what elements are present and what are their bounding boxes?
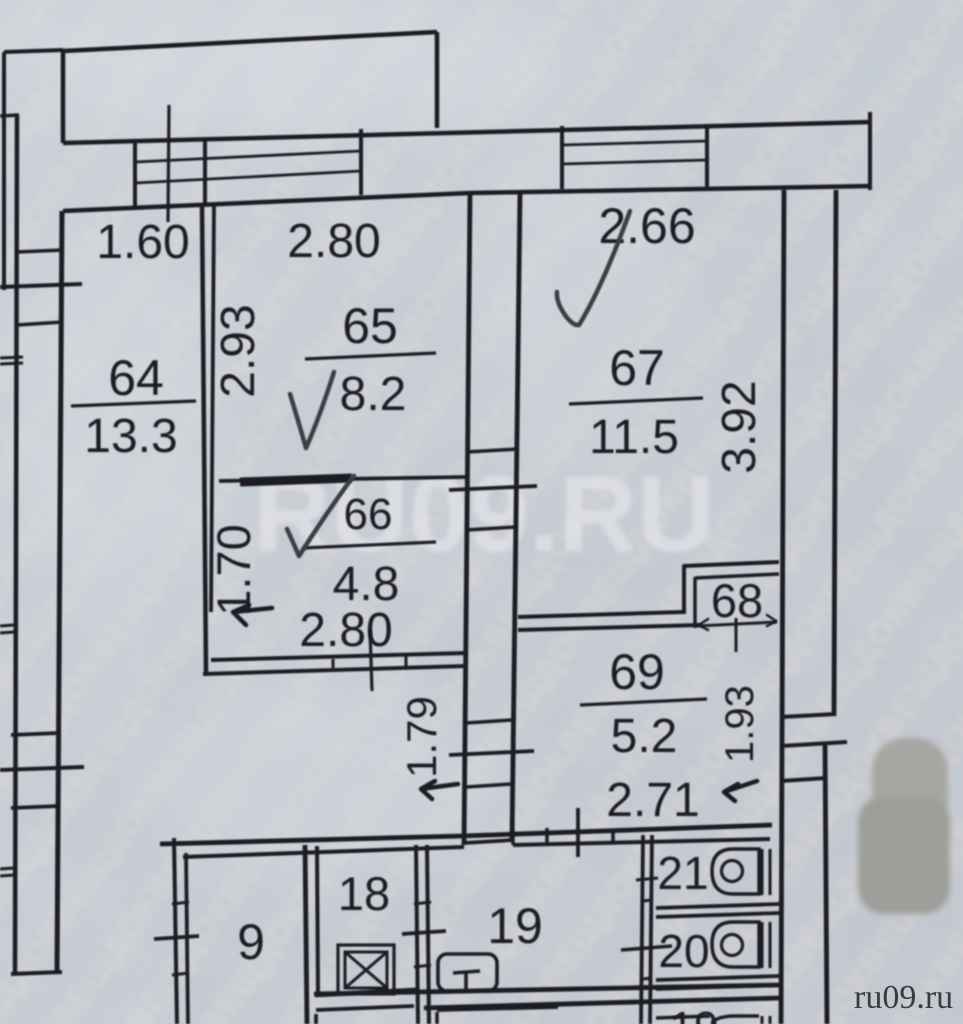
wall 20 bottom lower xyxy=(656,985,779,989)
wall small box right xyxy=(545,828,549,844)
svg-text:RU09.RU: RU09.RU xyxy=(253,453,715,574)
wall rung y251 xyxy=(17,250,63,252)
wall tick crossing y768 xyxy=(0,767,84,770)
svg-text:2.80: 2.80 xyxy=(287,215,380,268)
underline room 69 xyxy=(580,699,707,705)
printed arrow near 2.80 xyxy=(233,605,272,625)
stall rung xyxy=(643,900,652,901)
wall partial stub xyxy=(435,1012,439,1024)
wall 67|69 lower line xyxy=(518,625,700,630)
svg-text:64: 64 xyxy=(108,350,164,406)
svg-text:20: 20 xyxy=(658,925,709,977)
underline room 67 xyxy=(569,398,703,404)
window hatch line C xyxy=(562,141,707,145)
svg-text:1.93: 1.93 xyxy=(718,685,762,763)
wall 68 outer left xyxy=(682,565,686,614)
wall 64|65 left line xyxy=(202,204,206,672)
toilet21 tank line xyxy=(761,849,764,895)
wall tick crossing at y285 xyxy=(0,284,82,287)
wall tick double y633 xyxy=(0,632,14,633)
wall rung y806 xyxy=(11,806,59,808)
paper noise xyxy=(0,0,1,1)
wall bottom rung left column xyxy=(11,972,62,974)
svg-text:5.2: 5.2 xyxy=(611,710,678,763)
wall tick double y358 xyxy=(0,357,23,358)
wall middle right line xyxy=(512,193,520,840)
svg-text:19: 19 xyxy=(670,1003,719,1024)
wall connector tick y744 xyxy=(781,742,847,746)
wall corridor bottom outer left xyxy=(160,836,462,844)
window mullion x205 xyxy=(203,139,207,204)
wall rung y528 xyxy=(466,527,516,530)
window jamb x707 xyxy=(705,124,709,187)
svg-text:1.79: 1.79 xyxy=(398,696,445,778)
svg-text:68: 68 xyxy=(711,574,763,627)
svg-text:1.60: 1.60 xyxy=(96,216,189,269)
wall tick xyxy=(0,115,19,116)
svg-text:1.70: 1.70 xyxy=(207,524,260,615)
wall connector y780 xyxy=(781,778,826,781)
wall 18|19 left line xyxy=(416,845,418,1024)
duct rung y785 xyxy=(466,784,512,787)
wall 68 inner top xyxy=(695,574,779,578)
wall rung y324 xyxy=(17,322,63,325)
wall band bottom right xyxy=(470,186,872,193)
light overexposed patches xyxy=(10,0,670,880)
window jamb x135 xyxy=(133,141,137,206)
svg-text:66: 66 xyxy=(344,490,393,539)
pen checkmark room 67 xyxy=(557,211,630,325)
wall 64|65 right line xyxy=(211,204,214,612)
window hatch line A xyxy=(135,151,361,162)
wall room64 left xyxy=(57,211,62,973)
dimension tick 2.80 bottom xyxy=(370,629,372,691)
dimension tick 18|19 xyxy=(402,931,446,934)
wall outer-left long xyxy=(15,115,17,975)
wall 9 jamb y903 xyxy=(172,902,189,904)
underline room 64 xyxy=(71,401,196,406)
wall 21|20 lower xyxy=(656,913,779,917)
wall tick double y869 xyxy=(0,868,14,869)
wall small box left xyxy=(511,829,515,845)
dimension tick 68 center xyxy=(735,618,738,652)
wall stalls left inner xyxy=(650,835,652,1024)
dimension tick 2.71 xyxy=(576,808,580,857)
window jamb x562 xyxy=(560,126,564,189)
door jamb right xyxy=(405,656,408,666)
wall 65|66 thin xyxy=(219,477,466,481)
wall corridor bottom inner left xyxy=(183,847,464,857)
wall 67|69 upper line xyxy=(518,612,683,617)
door jamb 18 y903 xyxy=(414,902,431,904)
svg-text:2.80: 2.80 xyxy=(299,604,392,657)
wall band bottom / room top xyxy=(63,193,470,211)
wall 68 inner left xyxy=(693,577,697,628)
door jamb 18 y966 xyxy=(414,965,431,967)
wall tick crossing y488 xyxy=(449,486,537,490)
partial tank line2 xyxy=(769,1016,772,1024)
gray blob photo artifact xyxy=(858,738,950,914)
svg-text:65: 65 xyxy=(342,298,398,354)
wall 20 bottom upper xyxy=(656,976,779,980)
toilet20 tank line xyxy=(761,922,764,968)
partial toilet bowl bottom edge xyxy=(712,1016,759,1024)
door jamb corridor x613 xyxy=(611,829,615,843)
big watermark RU09.RU xyxy=(253,453,715,574)
svg-text:8.2: 8.2 xyxy=(340,368,407,421)
wall tick double y364 xyxy=(0,363,23,364)
wall top box top xyxy=(63,32,437,51)
underline room 65 xyxy=(305,353,436,359)
wall corridor bottom inner right xyxy=(513,839,770,845)
wall rung y450 xyxy=(466,449,518,452)
wall 18|19 right line xyxy=(427,845,429,1024)
toilet21 tank line2 xyxy=(769,849,772,895)
svg-text:ru09.ru: ru09.ru xyxy=(854,979,953,1016)
wall top box left xyxy=(61,51,66,143)
tick stall y948 xyxy=(621,946,672,950)
wall band top xyxy=(63,122,872,143)
wall partial box bottom edge xyxy=(437,1007,558,1010)
window jamb x361 xyxy=(359,129,363,195)
svg-text:2.66: 2.66 xyxy=(598,198,695,254)
wall connector y716 xyxy=(781,714,836,717)
wall 65|66 thick part xyxy=(240,478,352,482)
door jamb left xyxy=(332,659,335,668)
wall partial lower box left xyxy=(314,1014,318,1024)
underline room 66 xyxy=(303,542,436,548)
printed arrow near 2.71 xyxy=(724,781,757,801)
wall 18 left xyxy=(317,846,318,993)
stall rung xyxy=(643,978,652,979)
printed arrow below 1.79 xyxy=(421,781,458,799)
wall 9 left outer xyxy=(174,838,177,1024)
wall bottom row lower xyxy=(424,998,779,1008)
duct tick crossing y753 xyxy=(449,751,534,755)
tick stall y879 xyxy=(636,878,658,880)
partial tank line xyxy=(761,1016,764,1024)
toilet bowl stall 21 xyxy=(712,849,759,894)
svg-text:67: 67 xyxy=(609,340,665,396)
svg-text:69: 69 xyxy=(609,644,665,700)
wall top-left stub xyxy=(4,50,63,52)
toilet20 tank line2 xyxy=(769,922,772,968)
dimension tick 1.60 xyxy=(168,105,169,222)
wall partial lower box top xyxy=(316,1006,414,1010)
wall 9 jamb y974 xyxy=(172,973,189,975)
wall right B lower xyxy=(825,745,827,1024)
pen checkmark room 66 xyxy=(287,476,354,556)
svg-text:11.5: 11.5 xyxy=(589,411,679,464)
wall tick double y876 xyxy=(0,875,14,876)
wall stalls left outer xyxy=(641,835,643,1024)
svg-text:19: 19 xyxy=(487,898,543,954)
svg-text:13.3: 13.3 xyxy=(84,410,177,463)
dimension tick room9 xyxy=(154,936,199,939)
wall 9 right xyxy=(305,845,307,1024)
wall 66 bottom upper line xyxy=(211,653,466,660)
svg-text:3.92: 3.92 xyxy=(713,380,766,473)
wall bottom row upper xyxy=(314,985,779,994)
sink icon in room 19 xyxy=(438,954,497,991)
svg-text:18: 18 xyxy=(338,867,390,920)
duct rung y722 xyxy=(466,720,512,723)
wall rung y733 xyxy=(11,733,59,735)
wall right B upper xyxy=(834,190,836,716)
wall tick double y626 xyxy=(0,625,14,626)
svg-text:2.93: 2.93 xyxy=(212,304,265,397)
arrowhead 68 right xyxy=(767,615,776,626)
wall 18 bottom xyxy=(315,990,416,995)
window hatch line B xyxy=(135,171,361,183)
wall right A xyxy=(781,190,784,1024)
duct bottom rung xyxy=(464,840,513,843)
wall top box right xyxy=(435,32,440,128)
wall middle left line xyxy=(464,193,470,845)
pen checkmark room 65 xyxy=(290,372,334,448)
svg-text:21: 21 xyxy=(657,847,708,899)
toilet bowl stall 20 xyxy=(712,922,759,967)
wall 21|20 upper xyxy=(656,904,779,908)
arrowhead 68 left xyxy=(699,619,708,630)
wall 9 left inner xyxy=(186,853,188,1024)
wall outer-left upper xyxy=(2,52,6,290)
wall 68 outer top xyxy=(683,562,779,566)
ventilation shaft box with X in room 18 xyxy=(338,945,394,994)
dimension arrow 68 xyxy=(697,622,777,626)
wall corridor bottom outer right xyxy=(462,825,772,836)
partial stall wall xyxy=(656,1016,710,1018)
wall 66 bottom lower line xyxy=(203,666,466,674)
svg-text:9: 9 xyxy=(237,914,265,970)
svg-text:2.71: 2.71 xyxy=(606,774,699,827)
window hatch line D xyxy=(562,160,707,164)
wall band end tick right xyxy=(868,112,872,190)
